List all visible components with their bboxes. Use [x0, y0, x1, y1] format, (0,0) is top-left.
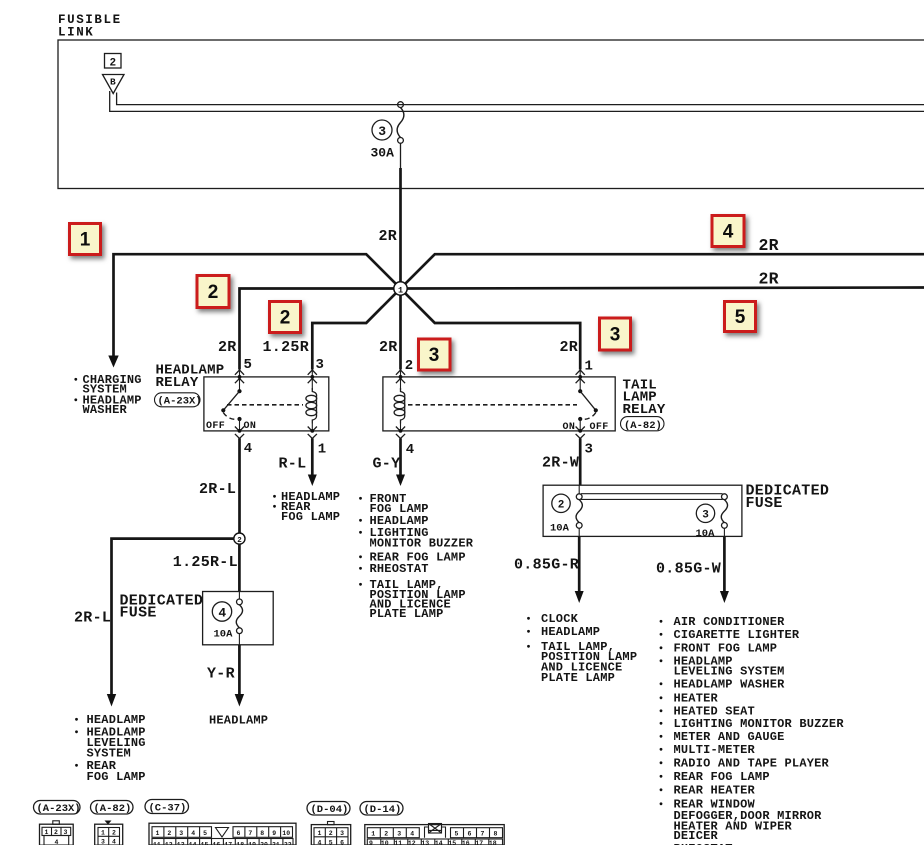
- tail lamp relay connector name A-82: [621, 417, 665, 431]
- svg-text:15: 15: [448, 840, 456, 845]
- svg-text:7: 7: [248, 830, 252, 837]
- svg-text:5: 5: [329, 839, 333, 845]
- svg-text:3: 3: [585, 442, 594, 458]
- pin 4 connector arrows: [235, 427, 244, 439]
- svg-text:0.85G-W: 0.85G-W: [656, 561, 721, 578]
- svg-text:PLATE LAMP: PLATE LAMP: [541, 671, 615, 685]
- svg-text:5: 5: [244, 357, 253, 373]
- svg-text:(D-14): (D-14): [364, 804, 402, 816]
- svg-text:(A-82): (A-82): [94, 803, 132, 815]
- callout box 1: [70, 224, 101, 255]
- svg-text:4: 4: [406, 442, 415, 458]
- svg-text:Y-R: Y-R: [207, 666, 235, 683]
- callout box 3 (at pin 2): [419, 339, 451, 370]
- headlamp relay connector name A-23X: [155, 393, 201, 407]
- svg-text:2: 2: [558, 500, 565, 512]
- svg-text:13: 13: [421, 840, 429, 845]
- svg-text:2: 2: [167, 830, 171, 837]
- svg-text:9: 9: [369, 840, 373, 845]
- wire 0.85G-W below fuse 3: [723, 536, 726, 591]
- connector label D-14: [360, 802, 403, 816]
- svg-text:0.85G-R: 0.85G-R: [514, 557, 579, 574]
- svg-text:FUSE: FUSE: [120, 605, 157, 622]
- wire 2R-L from headlamp relay pin 4 to node 2: [238, 438, 241, 533]
- fusible link triangle B: [103, 75, 125, 94]
- load list under 0.85G-W: [660, 620, 663, 623]
- connector A-82 pin grid: [105, 821, 112, 825]
- svg-text:4: 4: [410, 831, 414, 838]
- svg-text:2R: 2R: [759, 236, 779, 255]
- connector A-23X pin grid: [53, 821, 60, 825]
- wire 2R-W from tail relay pin 3: [579, 438, 582, 485]
- svg-text:(D-04): (D-04): [311, 804, 349, 816]
- svg-text:8: 8: [260, 830, 264, 837]
- headlamp relay coil at pin 3: [306, 388, 317, 424]
- svg-text:CLOCK: CLOCK: [541, 612, 579, 626]
- callout box 5: [725, 302, 756, 332]
- wire branch NE: node 1 to right edge (2R line 4): [403, 254, 924, 286]
- svg-text:2: 2: [208, 282, 219, 303]
- callout box 2 (left): [197, 276, 229, 308]
- svg-text:4: 4: [318, 839, 322, 845]
- svg-text:RELAY: RELAY: [156, 375, 199, 391]
- connector D-04 pin grid: [328, 822, 335, 825]
- pin 3 connector arrows: [311, 370, 313, 391]
- wire branch SW: node 1 to headlamp relay pin 3: [312, 291, 398, 370]
- wire branch SE: node 1 to tail lamp relay pin 1: [403, 291, 580, 370]
- svg-text:B: B: [110, 77, 116, 88]
- svg-text:22: 22: [284, 842, 292, 845]
- svg-text:1: 1: [101, 829, 105, 836]
- svg-text:DEICER: DEICER: [674, 829, 719, 843]
- svg-text:(A-23X): (A-23X): [158, 396, 202, 408]
- wire branch NW: node 1 to charging system: [114, 254, 399, 356]
- svg-text:2R: 2R: [218, 339, 237, 356]
- svg-text:4: 4: [723, 222, 734, 243]
- pin 4 connector arrows: [396, 427, 405, 439]
- svg-text:1: 1: [318, 830, 322, 837]
- svg-text:3: 3: [429, 345, 440, 366]
- svg-text:METER AND GAUGE: METER AND GAUGE: [674, 730, 785, 744]
- svg-text:RELAY: RELAY: [623, 402, 666, 418]
- bus bar between fuses 2 and 3: [581, 493, 723, 495]
- wire branch S: node 1 to tail lamp relay pin 2: [399, 292, 402, 370]
- pin 3 connector arrows: [576, 427, 585, 439]
- connector label A-82: [91, 801, 134, 815]
- svg-text:12: 12: [165, 842, 173, 845]
- wire R-L from headlamp relay pin 1: [311, 438, 314, 475]
- svg-text:1.25R: 1.25R: [263, 339, 310, 356]
- connector label A-23X: [34, 801, 81, 815]
- svg-text:3: 3: [378, 124, 386, 139]
- svg-text:18: 18: [236, 842, 244, 845]
- svg-text:6: 6: [237, 830, 241, 837]
- svg-text:8: 8: [494, 831, 498, 838]
- dedicated fuse box (right): [543, 485, 742, 536]
- svg-text:ON: ON: [244, 421, 257, 432]
- wire branch E: node 1 to right edge (2R line 5): [405, 288, 924, 289]
- svg-text:3: 3: [101, 839, 105, 845]
- svg-text:2: 2: [237, 537, 242, 545]
- svg-text:10: 10: [282, 830, 290, 837]
- callout box 2 (second): [270, 302, 301, 333]
- svg-text:10A: 10A: [214, 629, 234, 641]
- connector C-37 pin grid: [149, 823, 296, 845]
- svg-text:FRONT FOG LAMP: FRONT FOG LAMP: [674, 642, 778, 656]
- svg-text:HEADLAMP WASHER: HEADLAMP WASHER: [674, 678, 786, 692]
- svg-text:13: 13: [177, 842, 185, 845]
- svg-text:2R-L: 2R-L: [199, 481, 236, 498]
- headlamp relay U1 box: [204, 377, 329, 431]
- connector D-14 pin grid: [365, 825, 504, 845]
- svg-text:1: 1: [585, 359, 594, 375]
- svg-text:4: 4: [112, 839, 116, 845]
- svg-text:5: 5: [203, 830, 207, 837]
- svg-text:30A: 30A: [371, 146, 395, 161]
- svg-text:17: 17: [475, 840, 483, 845]
- svg-text:G-Y: G-Y: [373, 456, 401, 473]
- wire G-Y from tail relay pin 4: [399, 438, 402, 475]
- load list: charging system: [74, 378, 77, 381]
- svg-text:20: 20: [260, 842, 268, 845]
- svg-text:FUSE: FUSE: [746, 495, 783, 512]
- tail lamp relay switch: [578, 389, 582, 393]
- svg-text:14: 14: [435, 840, 443, 845]
- pin 1 connector arrows: [308, 427, 317, 439]
- svg-text:2: 2: [384, 831, 388, 838]
- svg-text:(C-37): (C-37): [149, 802, 187, 814]
- svg-text:18: 18: [489, 840, 497, 845]
- svg-text:6: 6: [340, 839, 344, 845]
- svg-text:6: 6: [468, 831, 472, 838]
- svg-text:(A-82): (A-82): [624, 420, 662, 432]
- svg-text:21: 21: [272, 842, 280, 845]
- pin 2 connector arrows: [400, 370, 402, 391]
- tail lamp relay coil at pin 2: [394, 388, 405, 424]
- fusible link box: [58, 40, 924, 189]
- svg-text:(A-23X): (A-23X): [37, 803, 81, 815]
- svg-text:OFF: OFF: [206, 421, 225, 432]
- svg-text:12: 12: [408, 840, 416, 845]
- svg-text:RHEOSTAT: RHEOSTAT: [370, 562, 429, 576]
- svg-text:4: 4: [244, 441, 253, 457]
- wire from fuse 3 down: [400, 143, 402, 168]
- svg-text:15: 15: [201, 842, 209, 845]
- svg-text:PLATE LAMP: PLATE LAMP: [370, 607, 444, 621]
- svg-text:HEADLAMP: HEADLAMP: [209, 714, 268, 728]
- svg-text:1: 1: [398, 285, 403, 295]
- svg-text:3: 3: [397, 831, 401, 838]
- svg-text:HEATER: HEATER: [674, 692, 719, 706]
- node 1 junction circle: [394, 282, 407, 295]
- pin 5 connector arrows: [239, 370, 241, 392]
- svg-text:3: 3: [610, 325, 621, 346]
- svg-text:7: 7: [481, 831, 485, 838]
- svg-text:3: 3: [179, 830, 183, 837]
- tail lamp relay dashed link: [408, 404, 577, 406]
- callout box 3 (at pin 1): [600, 318, 631, 350]
- svg-text:2: 2: [329, 830, 333, 837]
- svg-text:LEVELING SYSTEM: LEVELING SYSTEM: [674, 665, 785, 679]
- headlamp relay dashed link: [227, 404, 303, 406]
- svg-text:2R-W: 2R-W: [542, 455, 579, 472]
- svg-text:MULTI-METER: MULTI-METER: [674, 743, 756, 757]
- svg-text:16: 16: [213, 842, 221, 845]
- svg-text:FOG LAMP: FOG LAMP: [87, 770, 146, 784]
- svg-text:LINK: LINK: [58, 26, 94, 40]
- svg-text:2: 2: [280, 308, 291, 329]
- svg-text:3: 3: [702, 510, 709, 522]
- svg-text:1: 1: [318, 442, 327, 458]
- svg-text:2R: 2R: [759, 270, 779, 289]
- svg-text:10: 10: [381, 840, 389, 845]
- svg-text:2: 2: [112, 829, 116, 836]
- svg-text:REAR HEATER: REAR HEATER: [674, 784, 756, 798]
- svg-text:14: 14: [189, 842, 197, 845]
- svg-text:4: 4: [218, 605, 226, 620]
- node 2 junction circle: [234, 533, 245, 544]
- fuse 3 10A: [722, 494, 728, 500]
- svg-text:CIGARETTE LIGHTER: CIGARETTE LIGHTER: [674, 628, 800, 642]
- svg-text:17: 17: [224, 842, 232, 845]
- svg-text:FOG LAMP: FOG LAMP: [281, 510, 340, 524]
- headlamp relay switch: [237, 389, 241, 393]
- svg-text:4: 4: [191, 830, 195, 837]
- wire 1.25R-L from node 2 to dedicated fuse: [238, 544, 241, 592]
- wire from link B (double-line bus): [110, 91, 924, 111]
- svg-text:10A: 10A: [550, 523, 570, 535]
- wire branch W: node 1 to headlamp relay pin 5: [240, 289, 397, 370]
- svg-text:2: 2: [110, 58, 117, 70]
- svg-text:2R: 2R: [379, 228, 398, 245]
- dedicated fuse box (left): [203, 592, 274, 645]
- svg-text:9: 9: [272, 830, 276, 837]
- svg-text:OFF: OFF: [590, 422, 609, 433]
- svg-text:2R: 2R: [560, 339, 579, 356]
- svg-text:WASHER: WASHER: [83, 403, 128, 417]
- svg-text:RADIO AND TAPE PLAYER: RADIO AND TAPE PLAYER: [674, 757, 830, 771]
- tail lamp relay U2 box: [383, 377, 615, 431]
- wire branch left from node 2: [112, 539, 235, 695]
- load list under 0.85G-R: [527, 617, 530, 620]
- connector label C-37: [145, 800, 189, 814]
- svg-text:1.25R-L: 1.25R-L: [173, 554, 238, 571]
- svg-text:10A: 10A: [696, 528, 716, 540]
- load list under R-L: [273, 495, 276, 498]
- svg-text:2: 2: [405, 358, 414, 374]
- svg-text:4: 4: [55, 839, 59, 845]
- svg-text:HEADLAMP: HEADLAMP: [541, 625, 600, 639]
- svg-text:11: 11: [394, 840, 402, 845]
- svg-text:1: 1: [80, 230, 91, 251]
- load list bottom left (2R-L): [75, 718, 78, 721]
- fuse 2 10A: [578, 485, 580, 494]
- svg-text:2R: 2R: [379, 339, 398, 356]
- svg-text:2R-L: 2R-L: [74, 610, 111, 627]
- svg-text:LIGHTING MONITOR BUZZER: LIGHTING MONITOR BUZZER: [674, 717, 845, 731]
- svg-text:5: 5: [735, 307, 746, 328]
- svg-text:5: 5: [455, 831, 459, 838]
- svg-text:AIR CONDITIONER: AIR CONDITIONER: [674, 615, 786, 629]
- svg-text:3: 3: [316, 357, 325, 373]
- callout box 4: [712, 216, 744, 247]
- load list under G-Y: [359, 497, 362, 500]
- arrow to charging system: [108, 356, 118, 368]
- pin 1 connector arrows: [579, 370, 581, 392]
- fusible link 2 square symbol: [105, 54, 122, 69]
- svg-text:11: 11: [153, 842, 161, 845]
- wire Y-R below fuse 4: [238, 645, 241, 695]
- svg-text:R-L: R-L: [279, 456, 307, 473]
- connector label D-04: [307, 802, 350, 816]
- fuse 3 30A: [398, 102, 404, 108]
- svg-text:3: 3: [340, 830, 344, 837]
- svg-text:REAR FOG LAMP: REAR FOG LAMP: [674, 770, 770, 784]
- svg-text:ON: ON: [563, 422, 576, 433]
- fuse 4 10A: [238, 592, 240, 599]
- svg-text:1: 1: [156, 830, 160, 837]
- svg-text:1: 1: [371, 831, 375, 838]
- svg-text:16: 16: [462, 840, 470, 845]
- wire 0.85G-R below fuse 2: [578, 536, 581, 591]
- svg-text:MONITOR BUZZER: MONITOR BUZZER: [370, 537, 474, 551]
- svg-text:19: 19: [248, 842, 256, 845]
